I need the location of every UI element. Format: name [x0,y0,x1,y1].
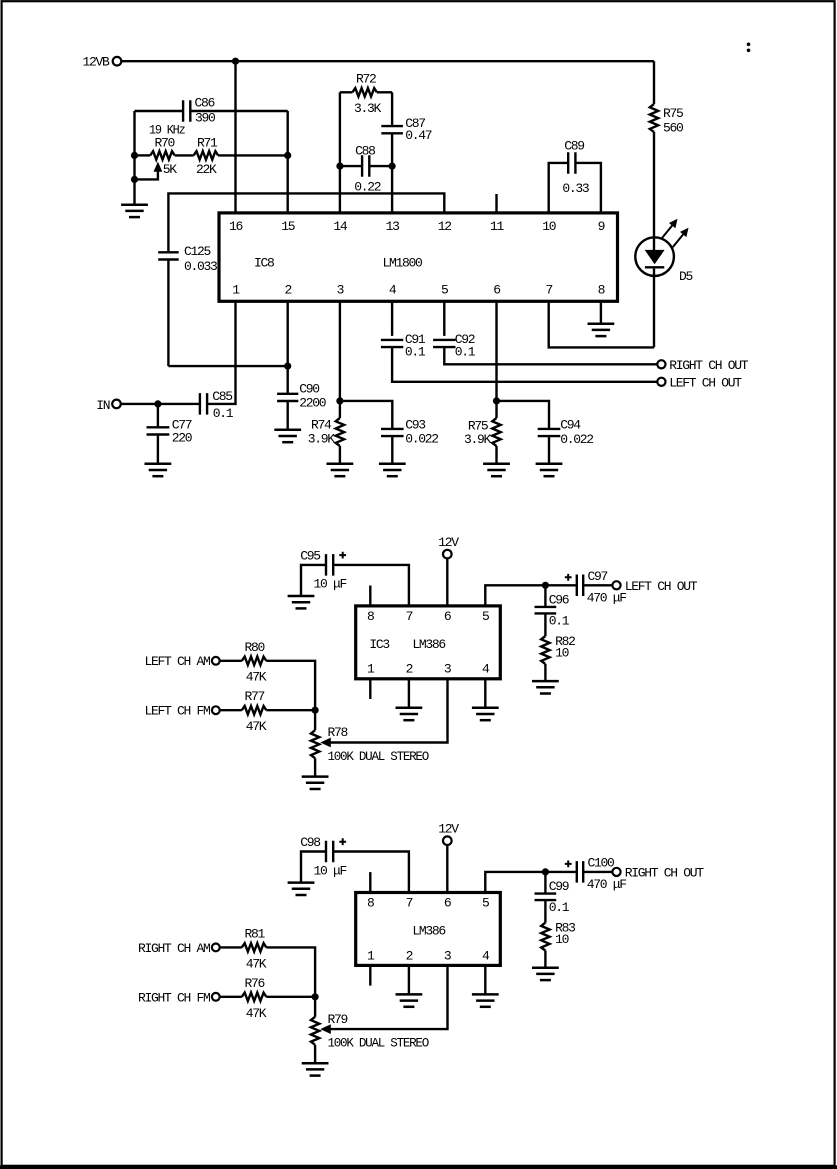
svg-text:0.47: 0.47 [405,128,432,143]
terminal LEFT CH OUT [657,378,665,386]
ground R74 [327,464,354,476]
terminal LEFT CH OUT [612,581,620,589]
svg-text:R75: R75 [663,106,683,121]
svg-text:2200: 2200 [299,396,326,411]
svg-text:16: 16 [229,219,243,234]
resistor R76 47K [220,996,242,998]
svg-text:47K: 47K [246,719,267,734]
svg-text:6: 6 [493,283,500,298]
svg-text:470 μF: 470 μF [587,591,627,606]
svg-text:8: 8 [598,283,605,298]
resistor R83 10 [541,923,549,951]
IC U LM386 box [356,893,501,966]
svg-text:R81: R81 [245,927,266,942]
svg-text:R79: R79 [328,1012,348,1027]
svg-text:3.9K: 3.9K [308,431,336,446]
svg-text:0.1: 0.1 [549,900,570,915]
svg-text:22K: 22K [196,162,217,177]
node R74 [336,397,343,404]
svg-text:220: 220 [172,431,192,446]
svg-text:LM1800: LM1800 [383,256,423,271]
svg-text:5K: 5K [163,162,178,177]
svg-text:3: 3 [444,948,451,963]
svg-text:470 μF: 470 μF [587,877,627,892]
node R79 [312,993,319,1000]
ground C93 [379,464,406,476]
LED D5 [635,237,674,276]
ground R83 [532,968,559,980]
node R70 left [131,152,138,159]
svg-text:IN: IN [96,398,110,413]
svg-text:4: 4 [482,662,490,677]
ground C90 [274,430,301,442]
wire pin 7 to LED [549,301,654,347]
wire pin 2 [287,301,289,394]
ground R78 [302,777,329,789]
svg-text:R76: R76 [245,976,265,991]
wire pin 15 [287,111,289,213]
svg-text:5: 5 [482,609,489,624]
ground C95 [288,596,315,608]
resistor R72 3.3K [340,91,353,93]
svg-text:0.1: 0.1 [455,345,476,360]
svg-text:C95: C95 [300,549,320,564]
svg-text:RIGHT CH FM: RIGHT CH FM [138,990,210,1005]
capacitor C89 0.33 [549,163,569,213]
IC IC3 LM386 box [356,606,501,679]
ground pin 4 [472,994,499,1006]
terminal RIGHT CH OUT [612,868,620,876]
wire pin 8 stub [369,872,371,892]
resistor R71 22K [194,151,219,159]
capacitor C85 0.1 [200,393,207,415]
wire pin 6 [495,301,497,418]
svg-text:LEFT CH AM: LEFT CH AM [144,654,210,669]
svg-text:3: 3 [337,283,344,298]
IC U8 LM1800 box [219,213,618,301]
svg-text:4: 4 [482,948,490,963]
wire pin 11 stub [495,194,497,213]
svg-text:5: 5 [482,896,489,911]
svg-text:9: 9 [598,219,605,234]
wire pin 5 output [485,585,577,606]
svg-text:IC8: IC8 [254,256,274,271]
svg-text:47K: 47K [246,956,267,971]
svg-text:LEFT CH FM: LEFT CH FM [144,704,210,719]
capacitor C97 470uF [577,575,583,597]
svg-text:7: 7 [406,609,413,624]
capacitor C96 0.1 [544,585,546,606]
capacitor C90 2200 [277,394,298,401]
svg-text:RIGHT CH AM: RIGHT CH AM [138,941,210,956]
svg-text:RIGHT CH OUT: RIGHT CH OUT [625,866,705,881]
svg-text:10 μF: 10 μF [314,577,347,592]
svg-text:12V: 12V [438,822,459,837]
svg-text:C89: C89 [564,139,584,154]
ground R75 [483,464,510,476]
capacitor C86 390 [135,110,184,112]
svg-text:R80: R80 [245,640,265,655]
resistor R75 560 [653,61,655,104]
wire pin 1 stub [369,679,371,699]
capacitor C94 0.022 [538,429,561,436]
ground R79 [302,1063,329,1075]
svg-text:LM386: LM386 [412,637,445,652]
svg-text:C98: C98 [300,835,320,850]
svg-text:LEFT CH OUT: LEFT CH OUT [669,376,742,391]
wire 12VB rail [121,60,654,62]
svg-text:7: 7 [545,283,552,298]
svg-text:0.33: 0.33 [562,181,589,196]
ground R70 [121,205,148,217]
wire pin 16 [234,61,236,213]
capacitor C77 220 [157,404,159,428]
ground C98 [288,883,315,895]
node pin2/C125 [284,363,291,370]
wire pin 4 [484,679,486,708]
ground C94 [536,464,563,476]
svg-text:C85: C85 [212,389,232,404]
svg-text:C96: C96 [549,593,569,608]
svg-text:R70: R70 [155,136,175,151]
wire R75 to C94 [497,401,550,429]
ground C77 [145,464,172,476]
ground pin 2 [396,994,423,1006]
colon mark [747,43,751,47]
capacitor C100 470uF [577,861,583,883]
svg-text:560: 560 [663,121,683,136]
svg-text:11: 11 [490,219,505,234]
svg-text:C86: C86 [195,96,215,111]
resistor R82 10 [541,636,549,664]
terminal LEFT CH AM [212,657,220,665]
svg-text:7: 7 [406,896,413,911]
svg-text:8: 8 [367,896,374,911]
potentiometer R70 5K 19KHz [135,154,151,156]
capacitor C98 10uF [301,852,326,883]
svg-text:100K DUAL STEREO: 100K DUAL STEREO [328,749,430,764]
wire pin 1 [207,301,235,404]
wire pin 1 stub [369,965,371,985]
capacitor C99 0.1 [544,872,546,893]
node R75 [493,397,500,404]
svg-text:C97: C97 [588,569,608,584]
svg-text:1: 1 [367,662,375,677]
resistor R80 47K [220,660,242,662]
svg-text:D5: D5 [679,269,693,284]
svg-text:C93: C93 [405,418,425,433]
node wiper [131,176,138,183]
resistor R77 47K [220,709,242,711]
svg-text:13: 13 [386,219,400,234]
svg-text:4: 4 [389,283,397,298]
svg-text:R71: R71 [197,136,218,151]
capacitor C95 10uF [301,565,326,596]
svg-text:0.1: 0.1 [549,614,570,629]
svg-text:0.033: 0.033 [184,259,217,274]
resistor R75 3.9K [492,418,500,446]
svg-text:47K: 47K [246,1006,267,1021]
wire pin 5 [443,301,445,336]
svg-text:10: 10 [555,932,569,947]
terminal RIGHT CH AM [212,944,220,952]
capacitor C93 0.022 [381,429,404,436]
svg-text:3: 3 [444,662,451,677]
potentiometer R79 100K [314,997,316,1017]
LED arrows [662,225,684,247]
wire pin 2 [408,679,410,708]
svg-text:15: 15 [281,219,295,234]
capacitor C88 0.22 [340,165,362,167]
wire left branch [133,111,135,205]
wire pin 8 stub [369,586,371,606]
capacitor C87 0.47 [391,92,393,126]
svg-text:C99: C99 [549,879,569,894]
ground pin 4 [472,708,499,720]
svg-text:3.9K: 3.9K [464,432,492,447]
terminal RIGHT CH OUT [657,360,665,368]
svg-text:8: 8 [367,609,374,624]
svg-text:LM386: LM386 [412,924,445,939]
terminal LEFT CH FM [212,706,220,714]
svg-text:0.1: 0.1 [213,406,234,421]
svg-text:0.022: 0.022 [560,432,593,447]
svg-text:6: 6 [444,609,451,624]
wire pin 4 [484,965,486,994]
svg-text:C90: C90 [299,382,319,397]
node C99 [542,868,549,875]
capacitor C125 0.033 [158,252,179,259]
potentiometer R78 100K [314,710,316,730]
svg-text:C88: C88 [355,144,375,159]
svg-text:2: 2 [406,662,413,677]
svg-text:RIGHT CH OUT: RIGHT CH OUT [669,358,749,373]
wire pin 14 [339,92,341,213]
svg-text:C100: C100 [588,856,615,871]
node pin15/R71 [284,152,291,159]
wire R74 to C93 [340,401,392,429]
wire pin 3 [339,301,341,418]
svg-text:2: 2 [284,283,291,298]
svg-text:3.3K: 3.3K [354,101,382,116]
svg-text:5: 5 [441,283,448,298]
wire C125 to pin 2 [168,365,287,367]
wire pin 5 output [485,872,577,893]
node C77 [154,400,161,407]
svg-text:IC3: IC3 [369,637,389,652]
svg-text:390: 390 [195,111,215,126]
node R78 [312,707,319,714]
capacitor C91 0.1 [381,340,403,347]
svg-text:47K: 47K [246,670,267,685]
svg-text:14: 14 [333,219,348,234]
ground R82 [532,681,559,693]
svg-text:C125: C125 [184,244,211,259]
svg-text:2: 2 [406,948,413,963]
svg-text:0.1: 0.1 [405,345,426,360]
svg-text:10: 10 [542,219,556,234]
resistor R81 47K [220,946,242,948]
svg-text:12V: 12V [438,535,459,550]
wire C125 rail to pin 12 [168,193,444,252]
svg-text:10: 10 [555,646,569,661]
svg-text:100K DUAL STEREO: 100K DUAL STEREO [328,1036,430,1051]
resistor R74 3.9K [336,418,344,446]
svg-text:C94: C94 [560,418,581,433]
svg-text:R77: R77 [245,689,265,704]
junction pin16/12VB [232,58,239,65]
svg-text:1: 1 [367,948,375,963]
svg-text:0.022: 0.022 [405,432,438,447]
svg-text:R72: R72 [356,72,376,87]
svg-text:12VB: 12VB [83,54,111,69]
ground pin 8 [588,324,615,336]
ground pin 2 [396,708,423,720]
wire pin 2 [408,965,410,994]
svg-text:12: 12 [438,219,452,234]
svg-text:10 μF: 10 μF [314,863,347,878]
svg-text:1: 1 [232,283,240,298]
wire pin 8 [600,301,602,323]
node C96 [542,582,549,589]
svg-text:6: 6 [444,896,451,911]
svg-text:R78: R78 [328,725,348,740]
capacitor C92 0.1 [433,340,455,347]
terminal RIGHT CH FM [212,993,220,1001]
wire pin 4 [391,301,393,336]
svg-text:LEFT CH OUT: LEFT CH OUT [625,579,698,594]
